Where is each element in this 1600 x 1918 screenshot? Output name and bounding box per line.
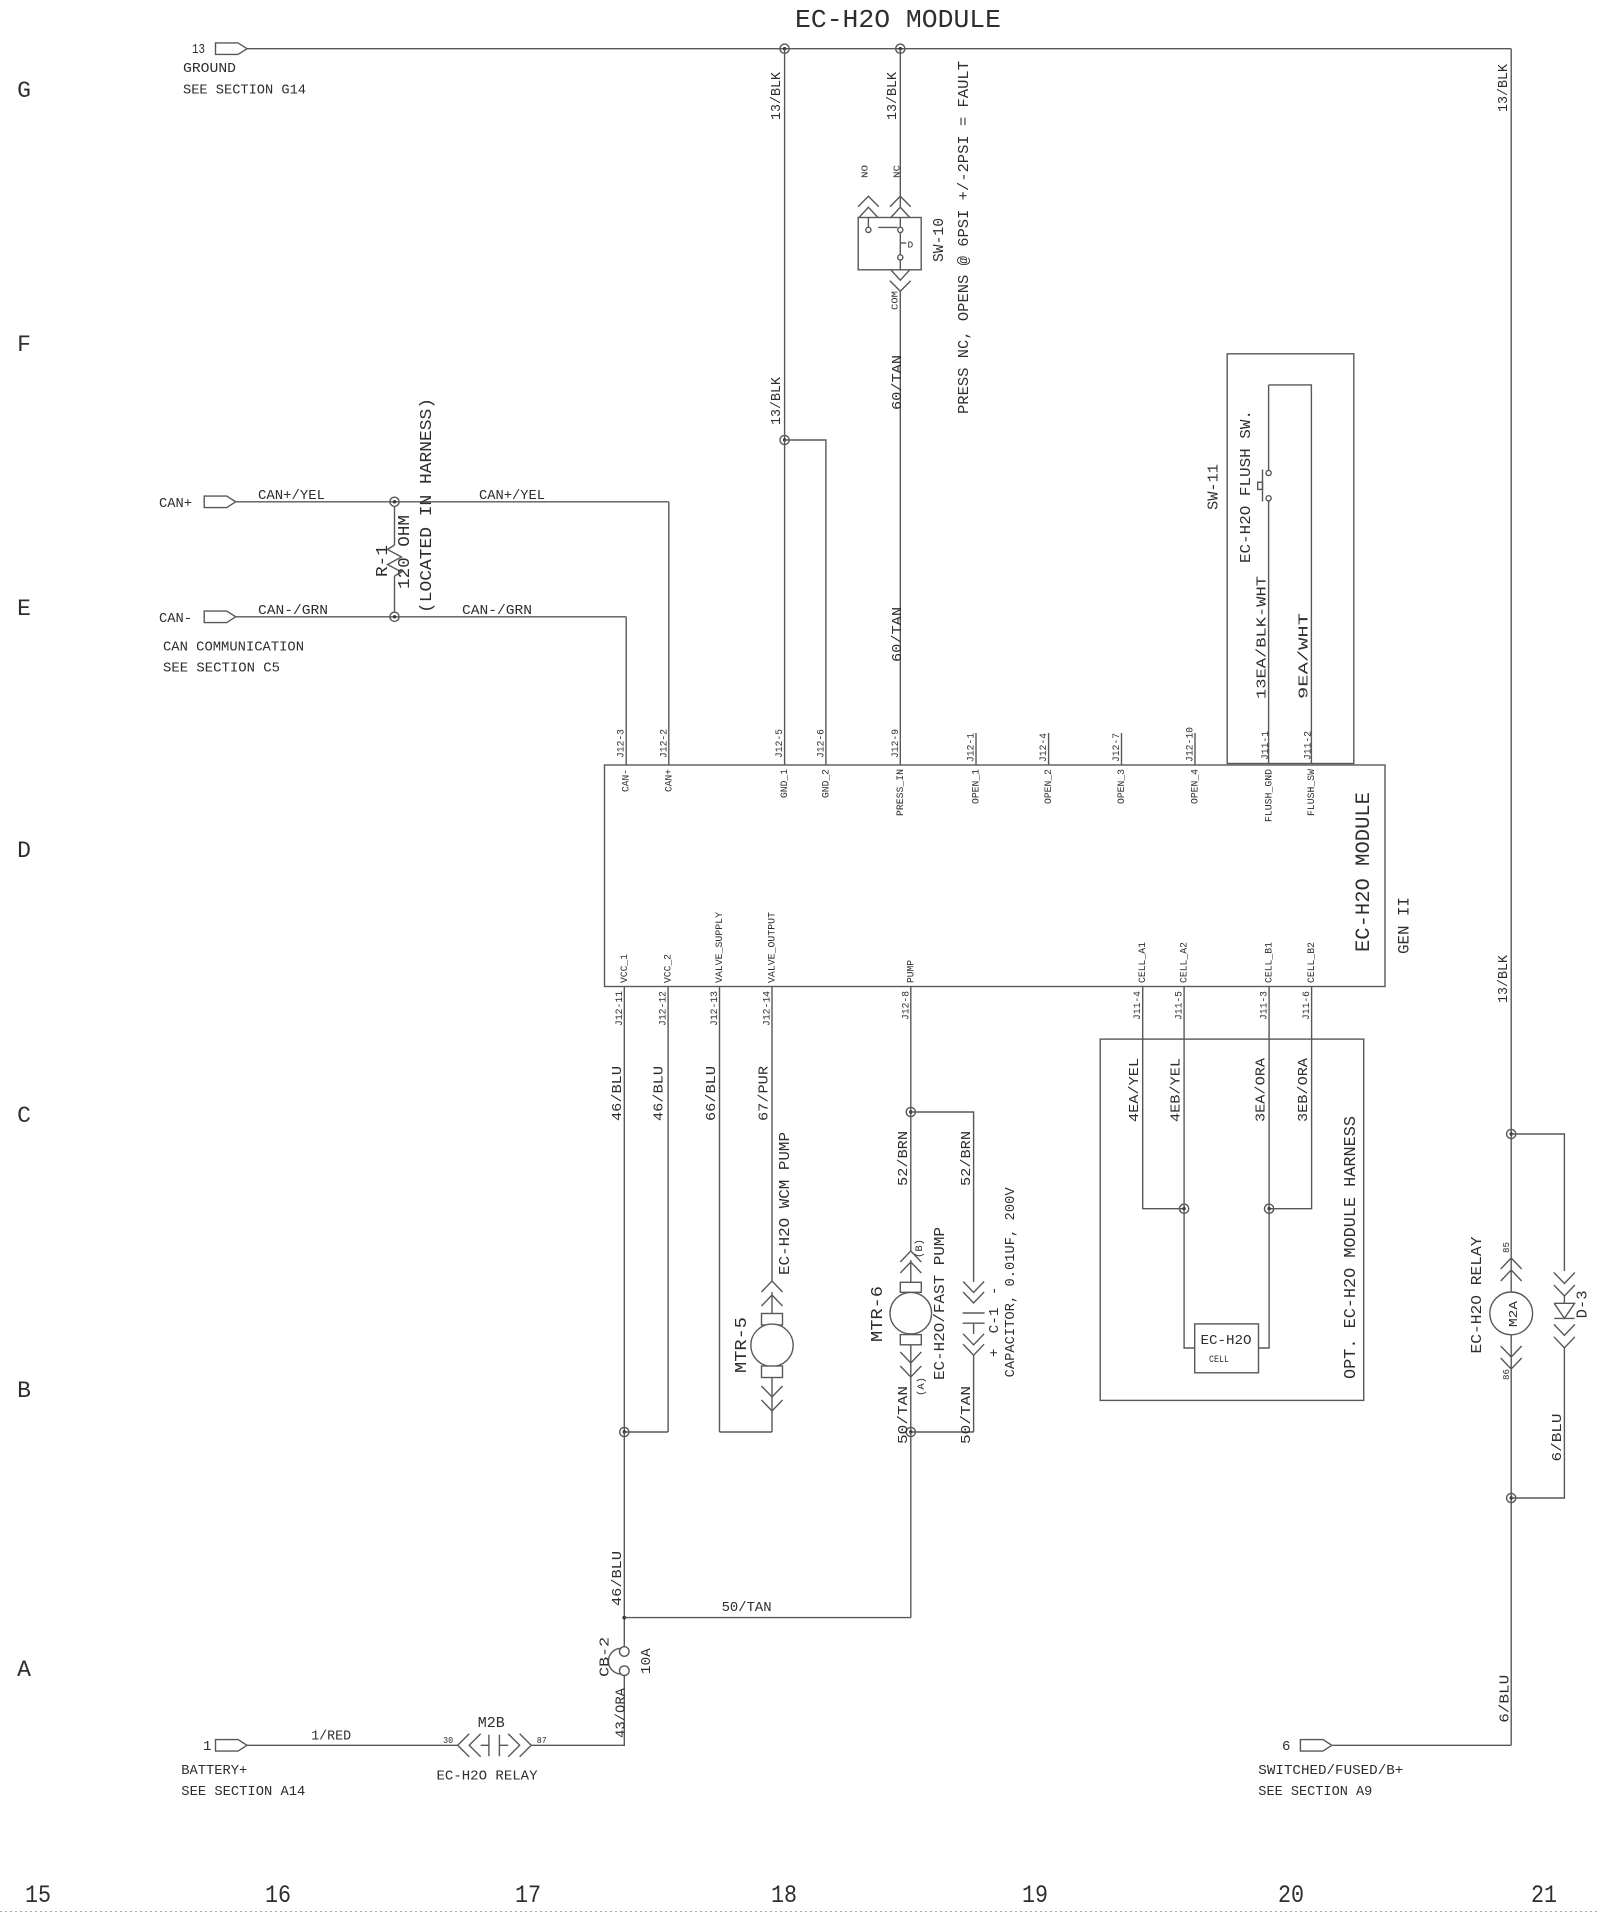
svg-text:OPEN_3: OPEN_3 bbox=[1117, 769, 1128, 804]
junction CAN- / R-1 bbox=[390, 612, 399, 621]
junction top wire / SW-10 branch bbox=[896, 44, 905, 53]
wire to J12-5 GND_1 bbox=[784, 440, 786, 765]
svg-text:CB-2: CB-2 bbox=[598, 1637, 614, 1677]
svg-text:GND_2: GND_2 bbox=[821, 769, 832, 798]
svg-text:VALVE_OUTPUT: VALVE_OUTPUT bbox=[768, 912, 779, 983]
svg-text:VCC_2: VCC_2 bbox=[664, 954, 675, 983]
junction pump / capacitor branch bbox=[906, 1107, 915, 1116]
svg-text:CAN-/GRN: CAN-/GRN bbox=[462, 603, 532, 619]
junction CAN+ / R-1 bbox=[390, 497, 399, 506]
wire 3EB/ORA J11-6 down bbox=[1269, 987, 1312, 1209]
svg-text:4EA/YEL: 4EA/YEL bbox=[1127, 1058, 1143, 1122]
svg-text:46/BLU: 46/BLU bbox=[610, 1551, 626, 1606]
svg-text:D-3: D-3 bbox=[1575, 1290, 1592, 1318]
svg-text:NO: NO bbox=[860, 165, 871, 178]
flush switch SW-11 contacts bbox=[1258, 385, 1312, 764]
bottom border bbox=[0, 1911, 1600, 1913]
svg-text:86: 86 bbox=[1502, 1369, 1512, 1380]
wire 60/TAN COM to PRESS_IN bbox=[899, 291, 901, 765]
svg-text:1: 1 bbox=[203, 1739, 211, 1755]
relay coil M2A bbox=[1490, 1258, 1533, 1369]
svg-text:52/BRN: 52/BRN bbox=[959, 1131, 975, 1186]
diode branch top wire bbox=[1511, 1134, 1564, 1271]
module open pin stub J12-10 bbox=[1194, 733, 1196, 765]
wire 4EA/YEL J11-4 down bbox=[1143, 987, 1184, 1209]
svg-text:67/PUR: 67/PUR bbox=[757, 1065, 773, 1121]
svg-text:C: C bbox=[17, 1103, 31, 1129]
svg-text:85: 85 bbox=[1502, 1242, 1512, 1253]
wire ground top horizontal bbox=[247, 48, 1511, 50]
svg-text:J12-9: J12-9 bbox=[891, 729, 902, 758]
wire 46/BLU J12-12 down bbox=[667, 987, 669, 1433]
wire VCC join horizontal bbox=[624, 1431, 668, 1433]
motor MTR-5 bbox=[751, 1281, 793, 1432]
svg-text:20: 20 bbox=[1278, 1881, 1304, 1910]
svg-text:OPEN_1: OPEN_1 bbox=[972, 769, 983, 804]
svg-text:J12-5: J12-5 bbox=[775, 729, 786, 758]
svg-text:13EA/BLK-WHT: 13EA/BLK-WHT bbox=[1255, 576, 1271, 699]
svg-text:120 OHM: 120 OHM bbox=[396, 515, 415, 589]
junction relay top bbox=[1507, 1129, 1516, 1138]
svg-text:OPT. EC-H2O MODULE HARNESS: OPT. EC-H2O MODULE HARNESS bbox=[1342, 1116, 1361, 1379]
svg-text:10A: 10A bbox=[639, 1648, 655, 1675]
svg-text:B: B bbox=[17, 1378, 31, 1404]
wire 67/PUR J12-14 down bbox=[771, 987, 773, 1282]
svg-text:16: 16 bbox=[265, 1881, 291, 1910]
svg-text:CELL_B2: CELL_B2 bbox=[1307, 942, 1318, 983]
svg-text:EC-H2O WCM PUMP: EC-H2O WCM PUMP bbox=[777, 1132, 794, 1275]
svg-text:J12-1: J12-1 bbox=[967, 733, 978, 762]
wire 4EB/YEL J11-5 down bbox=[1183, 987, 1185, 1209]
junction pump bottom bbox=[906, 1427, 915, 1436]
svg-text:M2B: M2B bbox=[478, 1715, 505, 1732]
OPT EC-H2O module harness box bbox=[1100, 1039, 1364, 1400]
relay contact M2B bbox=[458, 1734, 532, 1757]
svg-text:6/BLU: 6/BLU bbox=[1550, 1414, 1566, 1462]
wire 13/BLK to SW-10 NC bbox=[899, 49, 901, 207]
svg-text:3EB/ORA: 3EB/ORA bbox=[1296, 1057, 1312, 1122]
svg-text:6: 6 bbox=[1282, 1739, 1290, 1755]
svg-text:9EA/WHT: 9EA/WHT bbox=[1297, 613, 1313, 699]
svg-text:M2A: M2A bbox=[1507, 1300, 1521, 1327]
connector pin 1 BATTERY+ bbox=[216, 1740, 248, 1752]
EC-H2O MODULE box bbox=[605, 765, 1386, 987]
svg-text:J12-6: J12-6 bbox=[816, 729, 827, 758]
motor MTR-6 bbox=[890, 1251, 932, 1432]
wire 66/BLU J12-13 down bbox=[719, 987, 721, 1433]
svg-text:46/BLU: 46/BLU bbox=[652, 1066, 668, 1121]
svg-text:15: 15 bbox=[25, 1881, 51, 1910]
wire CAN- horizontal bbox=[236, 616, 627, 618]
svg-text:CAN+/YEL: CAN+/YEL bbox=[479, 488, 545, 504]
svg-text:30: 30 bbox=[443, 1736, 453, 1746]
svg-text:EC-H2O RELAY: EC-H2O RELAY bbox=[1469, 1237, 1486, 1354]
wire valve loop bottom bbox=[720, 1431, 773, 1433]
svg-text:SEE SECTION C5: SEE SECTION C5 bbox=[163, 661, 280, 677]
svg-text:EC-H2O/FAST PUMP: EC-H2O/FAST PUMP bbox=[932, 1227, 949, 1380]
junction relay bottom bbox=[1507, 1493, 1516, 1502]
connector CAN- bbox=[204, 611, 236, 623]
svg-text:18: 18 bbox=[771, 1881, 797, 1910]
svg-text:13/BLK: 13/BLK bbox=[1496, 63, 1512, 112]
svg-text:21: 21 bbox=[1531, 1881, 1557, 1910]
svg-text:17: 17 bbox=[515, 1881, 541, 1910]
wire M2B to CB-2 corner bbox=[531, 1676, 624, 1746]
svg-text:G: G bbox=[17, 78, 31, 104]
svg-text:J12-3: J12-3 bbox=[617, 729, 628, 758]
svg-text:D: D bbox=[908, 240, 914, 251]
svg-text:SW-11: SW-11 bbox=[1206, 464, 1223, 510]
wire capacitor branch top bbox=[911, 1112, 974, 1282]
svg-text:(A): (A) bbox=[916, 1377, 928, 1396]
svg-text:BATTERY+: BATTERY+ bbox=[181, 1763, 247, 1779]
svg-text:PRESS_IN: PRESS_IN bbox=[896, 769, 907, 816]
diode D-3 bbox=[1554, 1273, 1575, 1348]
svg-text:PUMP: PUMP bbox=[906, 960, 917, 983]
svg-text:50/TAN: 50/TAN bbox=[722, 1600, 772, 1616]
svg-text:CAN+: CAN+ bbox=[159, 496, 192, 512]
svg-text:C-1: C-1 bbox=[987, 1307, 1003, 1333]
wire 13/BLK to GND junction bbox=[784, 49, 786, 440]
svg-text:66/BLU: 66/BLU bbox=[704, 1066, 720, 1121]
module open pin stub J12-7 bbox=[1121, 733, 1123, 765]
wire CAN+ down to J12-2 bbox=[668, 502, 670, 765]
wire CAN- down to J12-3 bbox=[625, 617, 627, 765]
capacitor C-1 bbox=[963, 1282, 985, 1433]
svg-text:OPEN_2: OPEN_2 bbox=[1044, 769, 1055, 804]
svg-text:EC-H2O FLUSH SW.: EC-H2O FLUSH SW. bbox=[1238, 410, 1255, 563]
svg-text:CELL_A1: CELL_A1 bbox=[1138, 942, 1149, 983]
junction cell A wires bbox=[1180, 1204, 1189, 1213]
svg-text:FLUSH_GND: FLUSH_GND bbox=[1265, 769, 1276, 822]
svg-text:F: F bbox=[17, 332, 31, 358]
svg-text:4EB/YEL: 4EB/YEL bbox=[1169, 1058, 1185, 1122]
wire cell B down bbox=[1259, 1209, 1270, 1348]
svg-text:13/BLK: 13/BLK bbox=[769, 71, 785, 120]
svg-text:CELL_A2: CELL_A2 bbox=[1180, 942, 1191, 983]
connector pin 6 SWITCHED/FUSED/B+ bbox=[1300, 1740, 1332, 1752]
wire 50/TAN horizontal bbox=[624, 1617, 911, 1619]
wire to switched/fused connector bbox=[1333, 1744, 1511, 1746]
svg-text:NC: NC bbox=[892, 165, 903, 178]
svg-text:J11-2: J11-2 bbox=[1304, 731, 1315, 760]
svg-text:J11-1: J11-1 bbox=[1261, 731, 1272, 760]
connector CAN+ bbox=[204, 496, 236, 508]
svg-text:J12-4: J12-4 bbox=[1039, 733, 1050, 762]
svg-text:D: D bbox=[17, 838, 31, 864]
circuit breaker CB-2 bbox=[608, 1647, 629, 1676]
svg-text:50/TAN: 50/TAN bbox=[959, 1386, 975, 1444]
junction GND_1/GND_2 split bbox=[780, 435, 789, 444]
pressure switch SW-10 bbox=[858, 196, 921, 291]
module open pin stub J12-4 bbox=[1048, 733, 1050, 765]
EC-H2O CELL box bbox=[1195, 1324, 1259, 1373]
svg-text:J12-10: J12-10 bbox=[1186, 727, 1197, 762]
svg-text:MTR-6: MTR-6 bbox=[869, 1286, 888, 1342]
wire 13/BLK right edge vertical bbox=[1510, 49, 1512, 1746]
svg-text:COM: COM bbox=[890, 291, 901, 310]
wire 3EA/ORA J11-3 down bbox=[1268, 987, 1270, 1209]
svg-text:60/TAN: 60/TAN bbox=[890, 355, 906, 410]
junction VCC wires bbox=[620, 1427, 629, 1436]
connector pin 13 GROUND bbox=[216, 43, 248, 55]
svg-text:-: - bbox=[987, 1287, 1003, 1295]
svg-text:+: + bbox=[987, 1349, 1003, 1357]
module open pin stub J12-1 bbox=[975, 733, 977, 765]
svg-text:GEN II: GEN II bbox=[1396, 897, 1414, 954]
svg-text:CAN COMMUNICATION: CAN COMMUNICATION bbox=[163, 640, 304, 656]
svg-text:EC-H2O MODULE: EC-H2O MODULE bbox=[1353, 792, 1376, 952]
junction 46/BLU 50/TAN tap bbox=[622, 1616, 626, 1620]
svg-text:19: 19 bbox=[1022, 1881, 1048, 1910]
svg-text:EC-H2O RELAY: EC-H2O RELAY bbox=[437, 1769, 539, 1785]
svg-text:VALVE_SUPPLY: VALVE_SUPPLY bbox=[715, 912, 726, 983]
svg-text:R-1: R-1 bbox=[374, 545, 393, 577]
svg-text:CAN+/YEL: CAN+/YEL bbox=[258, 488, 325, 504]
svg-text:OPEN_4: OPEN_4 bbox=[1191, 769, 1202, 804]
svg-text:CAN+: CAN+ bbox=[664, 769, 675, 792]
svg-text:MTR-5: MTR-5 bbox=[733, 1317, 752, 1373]
svg-text:CAN-: CAN- bbox=[159, 611, 192, 627]
svg-text:13/BLK: 13/BLK bbox=[885, 71, 901, 120]
junction top wire / 13BLK left branch bbox=[780, 44, 789, 53]
svg-text:J12-2: J12-2 bbox=[659, 729, 670, 758]
resistor R-1 bbox=[388, 506, 402, 612]
svg-text:(B): (B) bbox=[914, 1239, 926, 1258]
svg-text:EC-H2O MODULE: EC-H2O MODULE bbox=[795, 5, 1001, 35]
svg-text:50/TAN: 50/TAN bbox=[896, 1386, 912, 1444]
svg-text:CAN-: CAN- bbox=[622, 769, 633, 792]
wire 46/BLU to 50/TAN tap bbox=[623, 1432, 625, 1647]
svg-text:EC-H2O: EC-H2O bbox=[1201, 1333, 1252, 1349]
wire 1/RED battery to M2B bbox=[247, 1744, 458, 1746]
svg-text:VCC_1: VCC_1 bbox=[620, 954, 631, 983]
wire CAN+ horizontal bbox=[236, 501, 669, 503]
svg-text:43/ORA: 43/ORA bbox=[614, 1687, 630, 1738]
svg-text:J12-7: J12-7 bbox=[1112, 733, 1123, 762]
svg-text:SWITCHED/FUSED/B+: SWITCHED/FUSED/B+ bbox=[1258, 1763, 1403, 1779]
svg-text:CELL: CELL bbox=[1209, 1355, 1229, 1366]
svg-text:SEE SECTION A14: SEE SECTION A14 bbox=[181, 1784, 305, 1800]
svg-text:60/TAN: 60/TAN bbox=[890, 607, 906, 662]
svg-text:6/BLU: 6/BLU bbox=[1498, 1675, 1514, 1723]
svg-text:13/BLK: 13/BLK bbox=[769, 376, 785, 425]
svg-text:SW-10: SW-10 bbox=[931, 218, 948, 262]
svg-text:CAPACITOR, 0.01UF, 200V: CAPACITOR, 0.01UF, 200V bbox=[1003, 1187, 1019, 1378]
diode branch bottom wire bbox=[1511, 1348, 1564, 1498]
wire capacitor branch bottom bbox=[911, 1431, 974, 1433]
wire cell A down bbox=[1184, 1209, 1195, 1348]
svg-text:13/BLK: 13/BLK bbox=[1496, 954, 1512, 1003]
wire 50/TAN down bbox=[910, 1432, 912, 1618]
svg-text:A: A bbox=[17, 1657, 31, 1683]
svg-text:87: 87 bbox=[537, 1736, 547, 1746]
wire 46/BLU J12-11 down bbox=[623, 987, 625, 1433]
svg-text:E: E bbox=[17, 596, 31, 622]
svg-text:GROUND: GROUND bbox=[183, 61, 236, 77]
wire 52/BRN J12-8 down bbox=[910, 987, 912, 1252]
svg-text:PRESS NC, OPENS @ 6PSI +/-2PSI: PRESS NC, OPENS @ 6PSI +/-2PSI = FAULT bbox=[956, 61, 973, 414]
svg-text:(LOCATED IN HARNESS): (LOCATED IN HARNESS) bbox=[418, 398, 437, 613]
svg-text:SEE SECTION A9: SEE SECTION A9 bbox=[1258, 1784, 1372, 1800]
svg-text:SEE SECTION G14: SEE SECTION G14 bbox=[183, 83, 306, 99]
svg-text:1/RED: 1/RED bbox=[311, 1729, 351, 1745]
svg-text:13: 13 bbox=[192, 42, 205, 58]
svg-text:46/BLU: 46/BLU bbox=[610, 1066, 626, 1121]
wire branch to GND_2 bbox=[785, 440, 826, 765]
svg-text:CAN-/GRN: CAN-/GRN bbox=[258, 603, 328, 619]
flush switch SW-11 enclosure box bbox=[1227, 354, 1354, 764]
svg-text:GND_1: GND_1 bbox=[780, 769, 791, 798]
svg-text:FLUSH_SW: FLUSH_SW bbox=[1307, 769, 1318, 816]
junction cell B wires bbox=[1265, 1204, 1274, 1213]
svg-text:CELL_B1: CELL_B1 bbox=[1265, 942, 1276, 983]
svg-text:52/BRN: 52/BRN bbox=[896, 1131, 912, 1186]
svg-text:3EA/ORA: 3EA/ORA bbox=[1254, 1057, 1270, 1122]
